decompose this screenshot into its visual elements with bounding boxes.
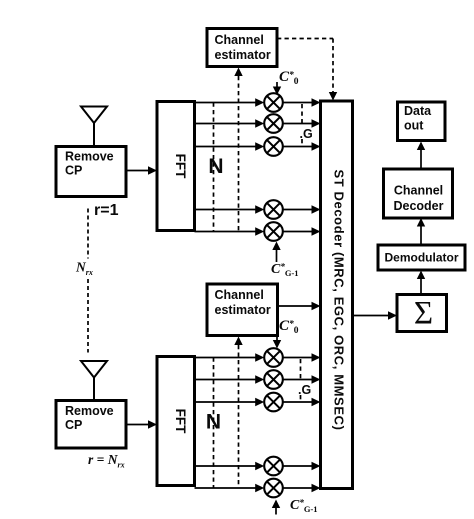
wire multiplier M10 to ST Decoder: [283, 484, 321, 492]
wire FFT1 output 2 to multiplier M2: [195, 119, 265, 127]
multiplier M2 (code despreading): [264, 114, 283, 133]
wire multiplier M7 to ST Decoder: [283, 375, 321, 383]
wire FFT1 output 4 to multiplier M4: [195, 205, 265, 213]
multiplier M10 (code despreading): [264, 479, 283, 498]
block FFT 1: [157, 102, 195, 231]
multiplier M3 (code despreading): [264, 137, 283, 156]
svg-text:Remove: Remove: [65, 150, 114, 164]
wire multiplier M2 to ST Decoder: [283, 119, 321, 127]
wire Remove CP 1 to FFT 1: [126, 166, 157, 174]
wire multiplier M5 to ST Decoder: [283, 227, 321, 235]
wire multiplier M8 to ST Decoder: [283, 398, 321, 406]
wire FFT2 output 4 to multiplier M9: [195, 462, 265, 470]
wire multiplier M4 to ST Decoder: [283, 205, 321, 213]
multiplier M6 (code despreading): [264, 348, 283, 367]
svg-text:Demodulator: Demodulator: [384, 251, 458, 265]
block Remove CP (branch r=1): [56, 147, 126, 197]
block Channel Decoder: [384, 169, 453, 218]
svg-text:CP: CP: [65, 164, 82, 178]
dashed group marker with label .G (top branch): [300, 104, 313, 146]
wire multiplier M3 to ST Decoder: [283, 142, 321, 150]
svg-text:Channel: Channel: [215, 288, 264, 302]
antenna ANT2 (receive antenna r=Nrx): [81, 361, 107, 401]
block Remove CP (branch r=Nrx): [56, 401, 126, 449]
label C*G-1 with wire into multiplier M5 (top branch): [271, 242, 299, 279]
block ST Decoder (MRC, EGC, ORC, MMSEC): [321, 101, 353, 489]
block Demodulator: [378, 245, 465, 270]
svg-text:.G: .G: [300, 127, 313, 141]
wire FFT2 output 5 to multiplier M10: [195, 484, 265, 492]
svg-text:.G: .G: [298, 383, 311, 397]
dashed group marker with label .G (bottom branch): [298, 359, 311, 402]
svg-text:N: N: [208, 155, 223, 178]
svg-text:Channel: Channel: [215, 33, 264, 47]
wire multiplier M1 to ST Decoder: [283, 98, 321, 106]
svg-text:out: out: [404, 119, 424, 133]
svg-text:estimator: estimator: [215, 48, 271, 62]
wire code C*0 into multiplier M1: [273, 82, 281, 95]
svg-text:Remove: Remove: [65, 404, 114, 418]
block Channel estimator 1: [207, 29, 277, 67]
wire FFT2 output 3 to multiplier M8: [195, 398, 265, 406]
svg-text:CP: CP: [65, 418, 82, 432]
wire FFT2 output 2 to multiplier M7: [195, 375, 265, 383]
svg-text:Data: Data: [404, 104, 432, 118]
dashed wire to channel estimator 2 (pilot extraction): [234, 337, 242, 489]
wire FFT2 output 1 to multiplier M6: [195, 353, 265, 361]
wire multiplier M9 to ST Decoder: [283, 462, 321, 470]
dashed bus ellipsis line (top branch, left): [213, 103, 215, 232]
antenna ANT1 (receive antenna r=1): [81, 107, 107, 148]
svg-text:Channel: Channel: [394, 184, 443, 198]
block FFT 2: [157, 357, 195, 486]
wire FFT1 output 3 to multiplier M3: [195, 142, 265, 150]
multiplier M7 (code despreading): [264, 370, 283, 389]
wire FFT1 output 5 to multiplier M5: [195, 227, 265, 235]
wire summation to Demodulator: [417, 271, 425, 295]
wire multiplier M6 to ST Decoder: [283, 353, 321, 361]
multiplier M8 (code despreading): [264, 393, 283, 412]
svg-text:FFT: FFT: [173, 409, 188, 434]
wire Remove CP 2 to FFT 2: [126, 420, 157, 428]
wire channel estimator 2 to ST Decoder: [278, 302, 321, 310]
multiplier M9 (code despreading): [264, 457, 283, 476]
wire Demodulator to Channel Decoder: [417, 218, 425, 245]
dashed ellipsis line between antennas with label Nrx: [75, 209, 93, 353]
dashed wire to channel estimator 1 (pilot extraction): [234, 68, 242, 232]
block summation (sigma): [397, 295, 447, 332]
svg-text:FFT: FFT: [173, 154, 188, 179]
dashed bus ellipsis line (bottom branch, left): [213, 358, 215, 489]
dashed wire channel estimator 1 to ST Decoder top: [277, 39, 337, 101]
wire FFT1 output 1 to multiplier M1: [195, 98, 265, 106]
svg-text:Σ: Σ: [414, 296, 433, 332]
wire code C*0 into multiplier M6: [273, 336, 281, 349]
wire Channel Decoder to Data out: [417, 142, 425, 170]
svg-text:r=1: r=1: [94, 202, 119, 219]
block Data out: [398, 102, 446, 141]
svg-text:estimator: estimator: [215, 303, 271, 317]
block Channel estimator 2: [207, 284, 278, 336]
svg-text:Decoder: Decoder: [393, 199, 443, 213]
label C*G-1 with wire into multiplier M10 (bottom branch): [272, 498, 318, 515]
multiplier M5 (code despreading): [264, 222, 283, 241]
multiplier M4 (code despreading): [264, 200, 283, 219]
multiplier M1 (code despreading): [264, 93, 283, 112]
wire ST Decoder to summation: [353, 311, 398, 319]
svg-text:ST Decoder (MRC, EGC, ORC, MMS: ST Decoder (MRC, EGC, ORC, MMSEC): [332, 169, 347, 430]
